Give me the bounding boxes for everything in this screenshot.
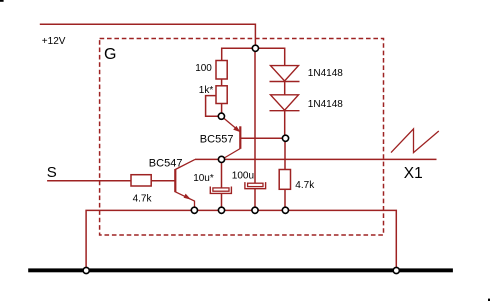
capacitor C1 10u* (electrolytic: plate + bracket) bbox=[213, 188, 229, 191]
wire emitter arrow into BC557 bbox=[224, 118, 239, 130]
wire S input bbox=[47, 180, 131, 182]
wire BC557 collector to X1 line node bbox=[223, 149, 241, 160]
generator dashed box G bbox=[100, 39, 384, 236]
wire resistor to BC547 base bbox=[151, 180, 175, 182]
node resistor 4.7k on ground row bbox=[282, 207, 288, 213]
svg-text:100: 100 bbox=[195, 63, 212, 74]
svg-text:1N4148: 1N4148 bbox=[308, 99, 343, 110]
resistor 4.7k (left, series base resistor) bbox=[131, 175, 151, 186]
wire base node down to resistor 4.7k (right) bbox=[284, 138, 286, 169]
node capacitor 100u on ground row bbox=[252, 207, 258, 213]
wire ground return row with end drops bbox=[86, 210, 396, 270]
wire resistor 4.7k (right) to ground row bbox=[284, 189, 286, 210]
wire main +12V rail down to capacitor 100u bbox=[254, 48, 256, 183]
wire BC547 collector to X1 line bbox=[175, 159, 195, 169]
resistor 1k* bbox=[216, 86, 227, 104]
svg-text:4.7k: 4.7k bbox=[133, 194, 153, 205]
wire diode chain to base node bbox=[284, 111, 286, 139]
node junction on +12V rail bbox=[252, 45, 258, 51]
corner mark bottom-right bbox=[488, 299, 490, 301]
node right drop on ground bus bbox=[393, 267, 399, 273]
wire resistor 1k* bottom to emitter node bbox=[221, 104, 223, 114]
svg-text:BC547: BC547 bbox=[149, 157, 183, 169]
svg-text:100u: 100u bbox=[232, 171, 254, 182]
wire capacitor 10u* to ground row bbox=[221, 193, 223, 210]
wire junction row to resistor 100 (left drop) bbox=[222, 48, 256, 60]
wire BC547 emitter with arrow bbox=[175, 192, 194, 207]
svg-text:4.7k: 4.7k bbox=[295, 180, 315, 191]
wire between diodes bbox=[284, 82, 286, 95]
node base of BC557 / diode junction bbox=[282, 135, 288, 141]
svg-text:+12V: +12V bbox=[42, 36, 66, 47]
ground bus bar bbox=[28, 268, 453, 272]
node capacitor 10u* on ground row bbox=[218, 207, 224, 213]
svg-text:1k*: 1k* bbox=[199, 85, 214, 96]
wire BC557 base to diode node bbox=[240, 137, 285, 139]
diode D2 1N4148 bbox=[271, 95, 299, 110]
svg-text:S: S bbox=[47, 164, 57, 181]
wire X1 output line bbox=[195, 158, 437, 160]
svg-text:1N4148: 1N4148 bbox=[308, 68, 343, 79]
node emitter of BC557 bbox=[218, 113, 224, 119]
diode D1 1N4148 bbox=[271, 66, 299, 81]
corner mark top-left bbox=[0, 0, 4, 2]
node left drop on ground bus bbox=[83, 267, 89, 273]
transistor Q2 BC547 base bar bbox=[174, 169, 176, 192]
capacitor C2 100u (electrolytic: plate + bracket) bbox=[248, 183, 263, 186]
wire tap jog from 1k* left side to emitter node bbox=[206, 96, 218, 117]
node collector junction on X1 line bbox=[218, 156, 224, 162]
svg-text:G: G bbox=[104, 46, 116, 63]
svg-text:X1: X1 bbox=[404, 165, 423, 182]
wire X1 node down to capacitor 10u* bbox=[221, 159, 223, 188]
wire between resistor 100 and resistor 1k* bbox=[221, 79, 223, 86]
resistor 100 bbox=[216, 61, 227, 80]
node BC547 emitter on ground row bbox=[191, 207, 197, 213]
transistor Q1 BC557 base bar bbox=[239, 126, 241, 149]
wire capacitor 100u to ground row bbox=[254, 189, 256, 211]
resistor 4.7k (right) bbox=[279, 170, 290, 190]
svg-text:10u*: 10u* bbox=[193, 173, 214, 184]
svg-text:BC557: BC557 bbox=[200, 133, 234, 145]
wire junction row to diode chain (right drop) bbox=[255, 48, 284, 65]
wire +12V supply rail (horizontal top, turns down at x=255.4) bbox=[40, 24, 256, 48]
sawtooth waveform icon bbox=[391, 129, 439, 153]
